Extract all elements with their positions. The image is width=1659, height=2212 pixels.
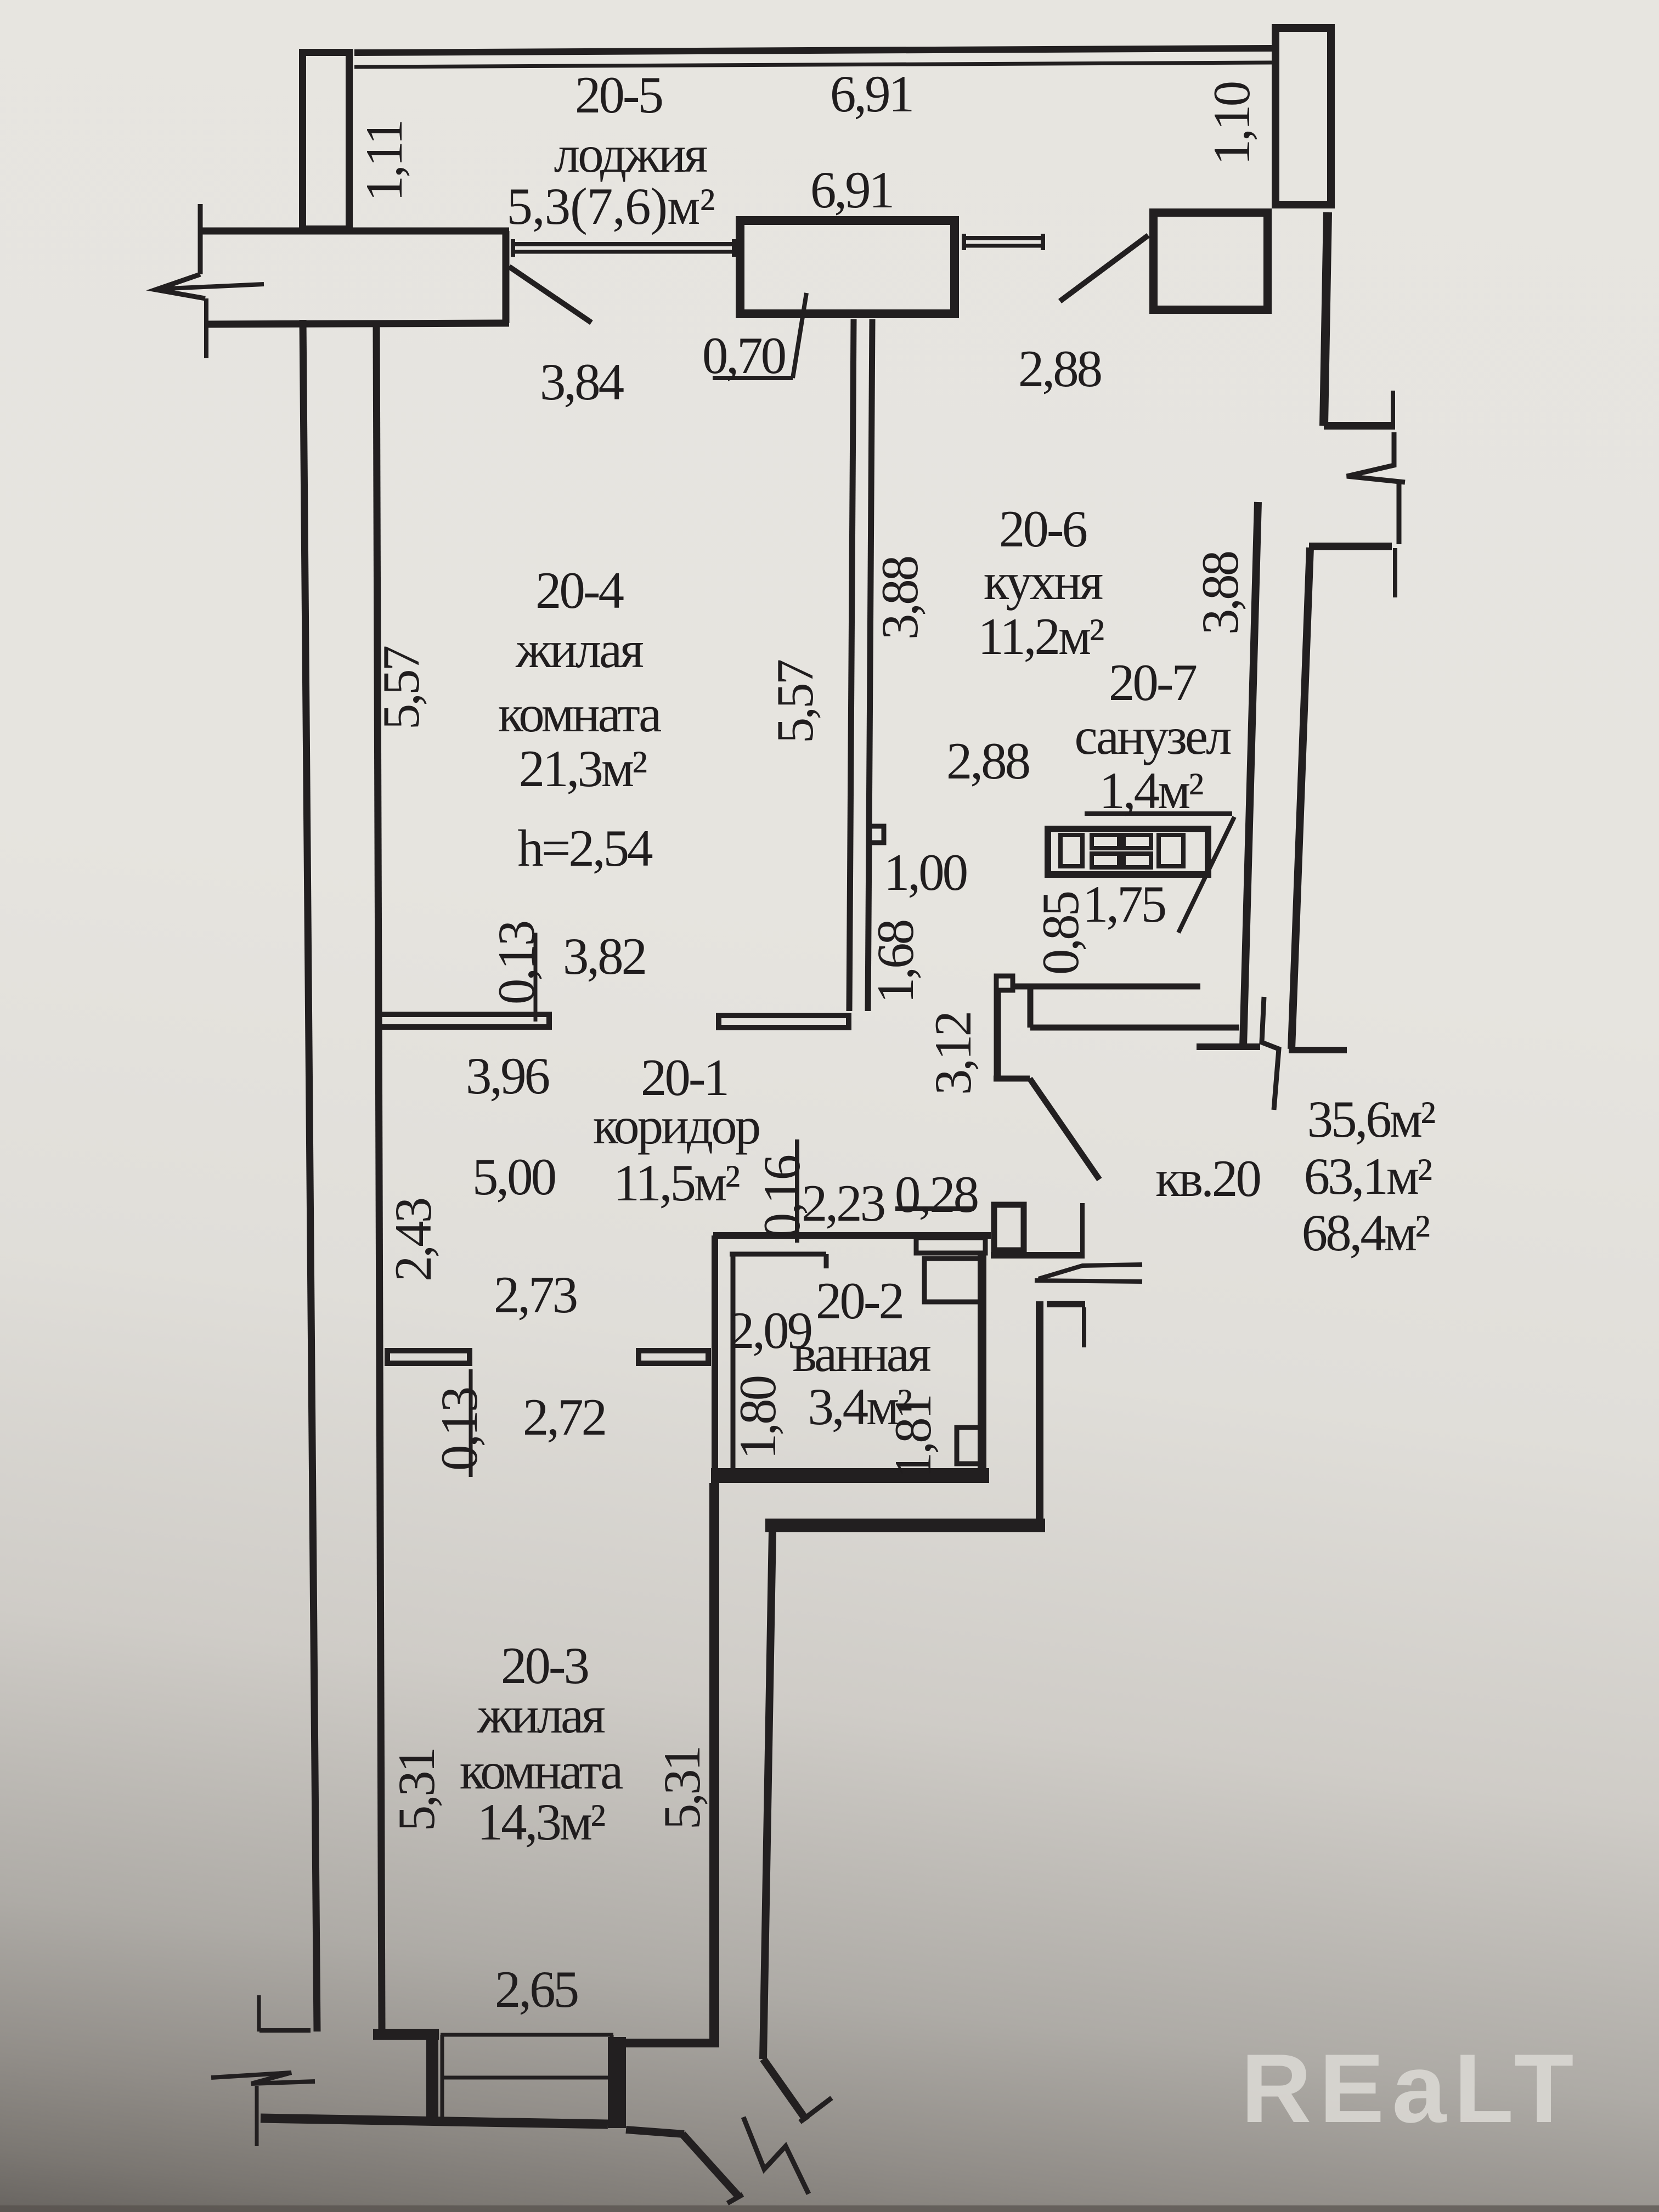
svg-text:0,13: 0,13 (430, 1388, 488, 1471)
dimension tick 0,16 (795, 1139, 799, 1243)
svg-text:5,31: 5,31 (387, 1749, 445, 1831)
svg-text:REaLT: REaLT (1241, 2034, 1582, 2143)
svg-text:1,4м²: 1,4м² (1099, 761, 1203, 820)
bottom wall pillar right (608, 2037, 626, 2128)
kitchen right wall (1324, 212, 1328, 426)
wall break symbol bottom-left (211, 2073, 315, 2084)
svg-text:1,75: 1,75 (1082, 875, 1165, 933)
svg-text:жилая: жилая (477, 1686, 605, 1744)
svg-text:жилая: жилая (515, 620, 643, 679)
bottom band wall (261, 2118, 608, 2124)
svg-text:3,84: 3,84 (540, 353, 624, 411)
sanuzel lower area notch (996, 976, 1013, 990)
svg-text:0,85: 0,85 (1031, 892, 1090, 975)
sanuzel right wall outer line (1291, 548, 1310, 1049)
svg-text:20-5: 20-5 (575, 66, 662, 124)
room 20-3 bottom wall (373, 2029, 439, 2040)
svg-text:3,88: 3,88 (871, 557, 929, 640)
tick bottom-left lower (255, 2086, 259, 2146)
svg-text:5,31: 5,31 (653, 1747, 711, 1830)
entry door stub wall (994, 1205, 1024, 1250)
wall break symbol right lower (1262, 997, 1279, 1110)
corridor bottom-right wall stub (639, 1351, 708, 1363)
sanuzel inner wall line V1 (1028, 986, 1034, 1028)
top-right wall pillar (1276, 28, 1331, 205)
room 20-3 right wall (709, 1483, 719, 2044)
bottom-left wall end line (259, 2028, 311, 2033)
lower right diagonal wall (763, 2059, 806, 2120)
svg-text:3,88: 3,88 (1191, 552, 1249, 635)
lower left diagonal wall (682, 2134, 738, 2196)
counter inner box mid top-right (1124, 835, 1151, 848)
svg-text:1,10: 1,10 (1203, 82, 1261, 165)
svg-text:0,13: 0,13 (487, 922, 545, 1005)
top-left wall band left edge lower (204, 298, 208, 358)
top-left wall band bottom edge (206, 323, 509, 324)
svg-text:коридор: коридор (593, 1097, 759, 1155)
bathroom right wall (978, 1254, 986, 1468)
top-left wall band left edge upper (198, 204, 203, 274)
bathroom top wall outer (713, 1232, 991, 1239)
partition wall room20-4/kitchen right line (868, 319, 872, 1011)
kitchen balcony door leaf diagonal (1060, 235, 1148, 301)
svg-text:5,57: 5,57 (766, 660, 824, 743)
sanuzel right wall inner bottom cap (1197, 1043, 1260, 1050)
tick below cap (1393, 548, 1397, 597)
counter inner box left (1060, 835, 1082, 866)
sanuzel bottom wall H2 (1030, 1025, 1239, 1031)
svg-text:кв.20: кв.20 (1155, 1149, 1260, 1207)
outer right wall cap (1309, 543, 1392, 550)
svg-text:11,2м²: 11,2м² (978, 607, 1104, 665)
svg-text:21,3м²: 21,3м² (519, 740, 647, 798)
bathroom left wall inner (731, 1254, 736, 1468)
wall below bathroom (765, 1519, 1045, 1532)
svg-text:3,82: 3,82 (563, 927, 645, 985)
tick right wall (1391, 391, 1395, 430)
sanuzel wall bottom cap (994, 1076, 1030, 1082)
bathroom vent notch (957, 1427, 984, 1464)
tick bottom-left upper (257, 1995, 261, 2032)
sanuzel right wall outer bottom cap (1289, 1047, 1347, 1053)
dimension tick 0,13 room20-4 (534, 933, 538, 1022)
svg-text:2,72: 2,72 (523, 1388, 605, 1446)
svg-text:комната: комната (498, 685, 661, 743)
svg-text:3,96: 3,96 (466, 1047, 549, 1105)
top-left wall pillar (303, 53, 349, 229)
room 20-4 loggia window (513, 242, 734, 246)
loggia top rail lower line (354, 63, 1272, 67)
wall break symbol entry (1035, 1265, 1142, 1282)
svg-text:2,43: 2,43 (384, 1199, 442, 1282)
sanuzel inner wall line H1 (1015, 984, 1200, 990)
svg-text:20-2: 20-2 (816, 1272, 902, 1330)
loggia door leaf diagonal (509, 267, 591, 323)
door sill line upper (441, 2033, 613, 2037)
svg-text:6,91: 6,91 (830, 65, 912, 123)
counter inner box mid top-left (1092, 835, 1119, 848)
tick entry upper (1080, 1203, 1085, 1259)
kitchen right wall bottom cap (1324, 422, 1393, 430)
underline label 0,28 (895, 1206, 974, 1211)
svg-text:5,57: 5,57 (372, 646, 430, 730)
kitchen loggia window rail (964, 236, 1043, 240)
svg-text:1,00: 1,00 (884, 843, 967, 901)
loggia door block (740, 221, 955, 314)
corridor top wall bar (719, 1015, 849, 1028)
corridor bottom-left wall stub (387, 1351, 470, 1363)
svg-text:1,81: 1,81 (884, 1396, 942, 1478)
svg-text:3,12: 3,12 (924, 1013, 982, 1095)
svg-text:20-7: 20-7 (1109, 653, 1197, 712)
ventilation shaft box kitchen top-right (1154, 213, 1268, 310)
svg-text:20-4: 20-4 (535, 561, 624, 619)
svg-text:комната: комната (460, 1742, 623, 1800)
svg-text:20-6: 20-6 (999, 500, 1087, 558)
lower section right wall (763, 1532, 772, 2059)
svg-text:11,5м²: 11,5м² (613, 1154, 740, 1212)
entrance door leaf diagonal (1030, 1079, 1099, 1180)
partition wall room20-4/kitchen left line (849, 319, 854, 1011)
tick across diagonal (800, 2098, 832, 2122)
svg-text:0,70: 0,70 (702, 326, 785, 385)
loggia top rail upper line (354, 48, 1272, 53)
wall break symbol top-left (156, 274, 205, 298)
left outer wall inner line (376, 323, 382, 2030)
svg-text:0,16: 0,16 (753, 1155, 811, 1239)
top-left wall band right end (503, 231, 510, 323)
entry upper wall horizontal (991, 1252, 1082, 1259)
counter inner box right (1159, 835, 1183, 866)
wall break symbol top-right (1347, 432, 1405, 544)
counter inner box mid bottom-right (1124, 854, 1151, 867)
bathroom left wall outer (712, 1235, 718, 1481)
bottom wall pillar left (426, 2033, 438, 2121)
underline label 1,4m2 (1085, 811, 1232, 816)
washing machine box (916, 1238, 985, 1253)
tick 0,13 lower (469, 1369, 473, 1477)
tick entry stub (1082, 1307, 1086, 1347)
bathroom bottom wall (711, 1468, 989, 1483)
svg-text:5,3(7,6)м²: 5,3(7,6)м² (506, 177, 714, 235)
svg-text:1,68: 1,68 (866, 921, 924, 1003)
door jamb left (441, 2035, 444, 2119)
top-left wall band top edge (201, 228, 509, 235)
svg-text:2,73: 2,73 (494, 1266, 577, 1324)
svg-text:кухня: кухня (984, 552, 1103, 611)
svg-text:35,6м²: 35,6м² (1307, 1090, 1435, 1148)
svg-text:68,4м²: 68,4м² (1302, 1204, 1430, 1262)
svg-text:14,3м²: 14,3м² (477, 1793, 605, 1851)
room 20-4 bottom wall bar (379, 1014, 549, 1027)
counter inner box mid bottom-left (1092, 854, 1119, 867)
svg-text:63,1м²: 63,1м² (1304, 1147, 1432, 1205)
svg-text:2,65: 2,65 (495, 1960, 578, 2018)
sanuzel left wall lower (994, 991, 1001, 1079)
bathroom top wall step (824, 1254, 829, 1268)
svg-text:2,23: 2,23 (802, 1174, 884, 1232)
svg-text:ванная: ванная (792, 1324, 930, 1383)
svg-text:h=2,54: h=2,54 (517, 819, 653, 877)
svg-text:2,88: 2,88 (1018, 340, 1101, 398)
sanuzel right wall inner line (1243, 502, 1258, 1047)
svg-text:санузел: санузел (1075, 707, 1232, 765)
bottom wall connector (626, 2130, 684, 2134)
kitchen counter block outline (1048, 829, 1208, 874)
entry wall stub horizontal (1047, 1301, 1085, 1307)
svg-text:0,28: 0,28 (895, 1165, 978, 1223)
wall room20-3 to door pillar (616, 2039, 719, 2047)
svg-text:5,00: 5,00 (472, 1148, 555, 1206)
partition pilaster notch (869, 826, 884, 843)
left outer wall outer line (303, 320, 317, 2032)
svg-text:6,91: 6,91 (810, 161, 893, 219)
bottom photo edge (0, 2205, 1659, 2212)
svg-text:лоджия: лоджия (554, 125, 707, 183)
break zigzag bottom (743, 2117, 809, 2194)
leader line 0,70 to door block (793, 293, 806, 378)
bathroom top wall inner (730, 1252, 826, 1257)
svg-text:1,80: 1,80 (729, 1376, 787, 1459)
washing machine box lower (924, 1259, 984, 1302)
underline dim 0,70 (713, 376, 793, 380)
tick lower diagonal (727, 2194, 743, 2203)
svg-text:2,88: 2,88 (946, 732, 1029, 790)
leader line sanuzel (1178, 817, 1234, 933)
door jamb right (610, 2035, 614, 2079)
entry right wall vertical (1036, 1301, 1043, 1525)
svg-text:1,11: 1,11 (355, 121, 413, 202)
door sill line lower (441, 2076, 613, 2080)
